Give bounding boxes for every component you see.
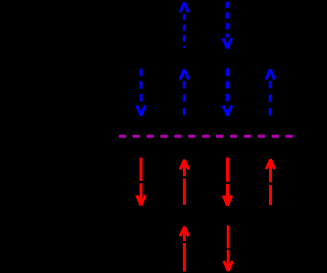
arrowhead xyxy=(266,70,275,80)
wire xyxy=(269,81,272,115)
arrowhead xyxy=(266,159,275,169)
red up arrow (row3, col4) xyxy=(266,159,275,205)
arrowhead xyxy=(137,105,146,115)
blue dashed down arrow (top row, col3) xyxy=(223,2,232,48)
arrowhead xyxy=(180,160,189,170)
magenta dashed boundary line xyxy=(119,135,293,138)
red down arrow (row4, col3) xyxy=(224,226,233,271)
wire xyxy=(226,2,229,38)
wire xyxy=(183,81,186,115)
arrowhead xyxy=(180,3,189,13)
arrowhead xyxy=(223,38,232,48)
wire xyxy=(269,162,272,205)
blue dashed up arrow (row2, col4) xyxy=(266,70,275,116)
blue dashed up arrow (row2, col2) xyxy=(180,70,189,116)
arrowhead xyxy=(224,261,233,271)
wire xyxy=(183,14,186,48)
red down arrow (row3, col1) xyxy=(137,158,146,206)
red down arrow (row3, col3) xyxy=(223,158,232,206)
wire xyxy=(140,69,143,105)
red up arrow (row4, col2) xyxy=(180,227,189,272)
arrowhead xyxy=(223,105,232,115)
red up arrow (row3, col2) xyxy=(180,160,189,205)
blue dashed down arrow (row2, col3) xyxy=(223,69,232,116)
wire xyxy=(183,162,186,205)
blue dashed up arrow (top row, col2) xyxy=(180,3,189,48)
wire xyxy=(226,158,229,204)
wire xyxy=(227,226,230,270)
wire xyxy=(140,158,143,204)
arrowhead xyxy=(223,196,232,206)
blue dashed down arrow (row2, col1) xyxy=(137,69,146,116)
wire xyxy=(183,229,186,272)
wire xyxy=(226,69,229,105)
arrowhead xyxy=(180,227,189,237)
arrowhead xyxy=(180,70,189,80)
arrowhead xyxy=(137,195,146,205)
